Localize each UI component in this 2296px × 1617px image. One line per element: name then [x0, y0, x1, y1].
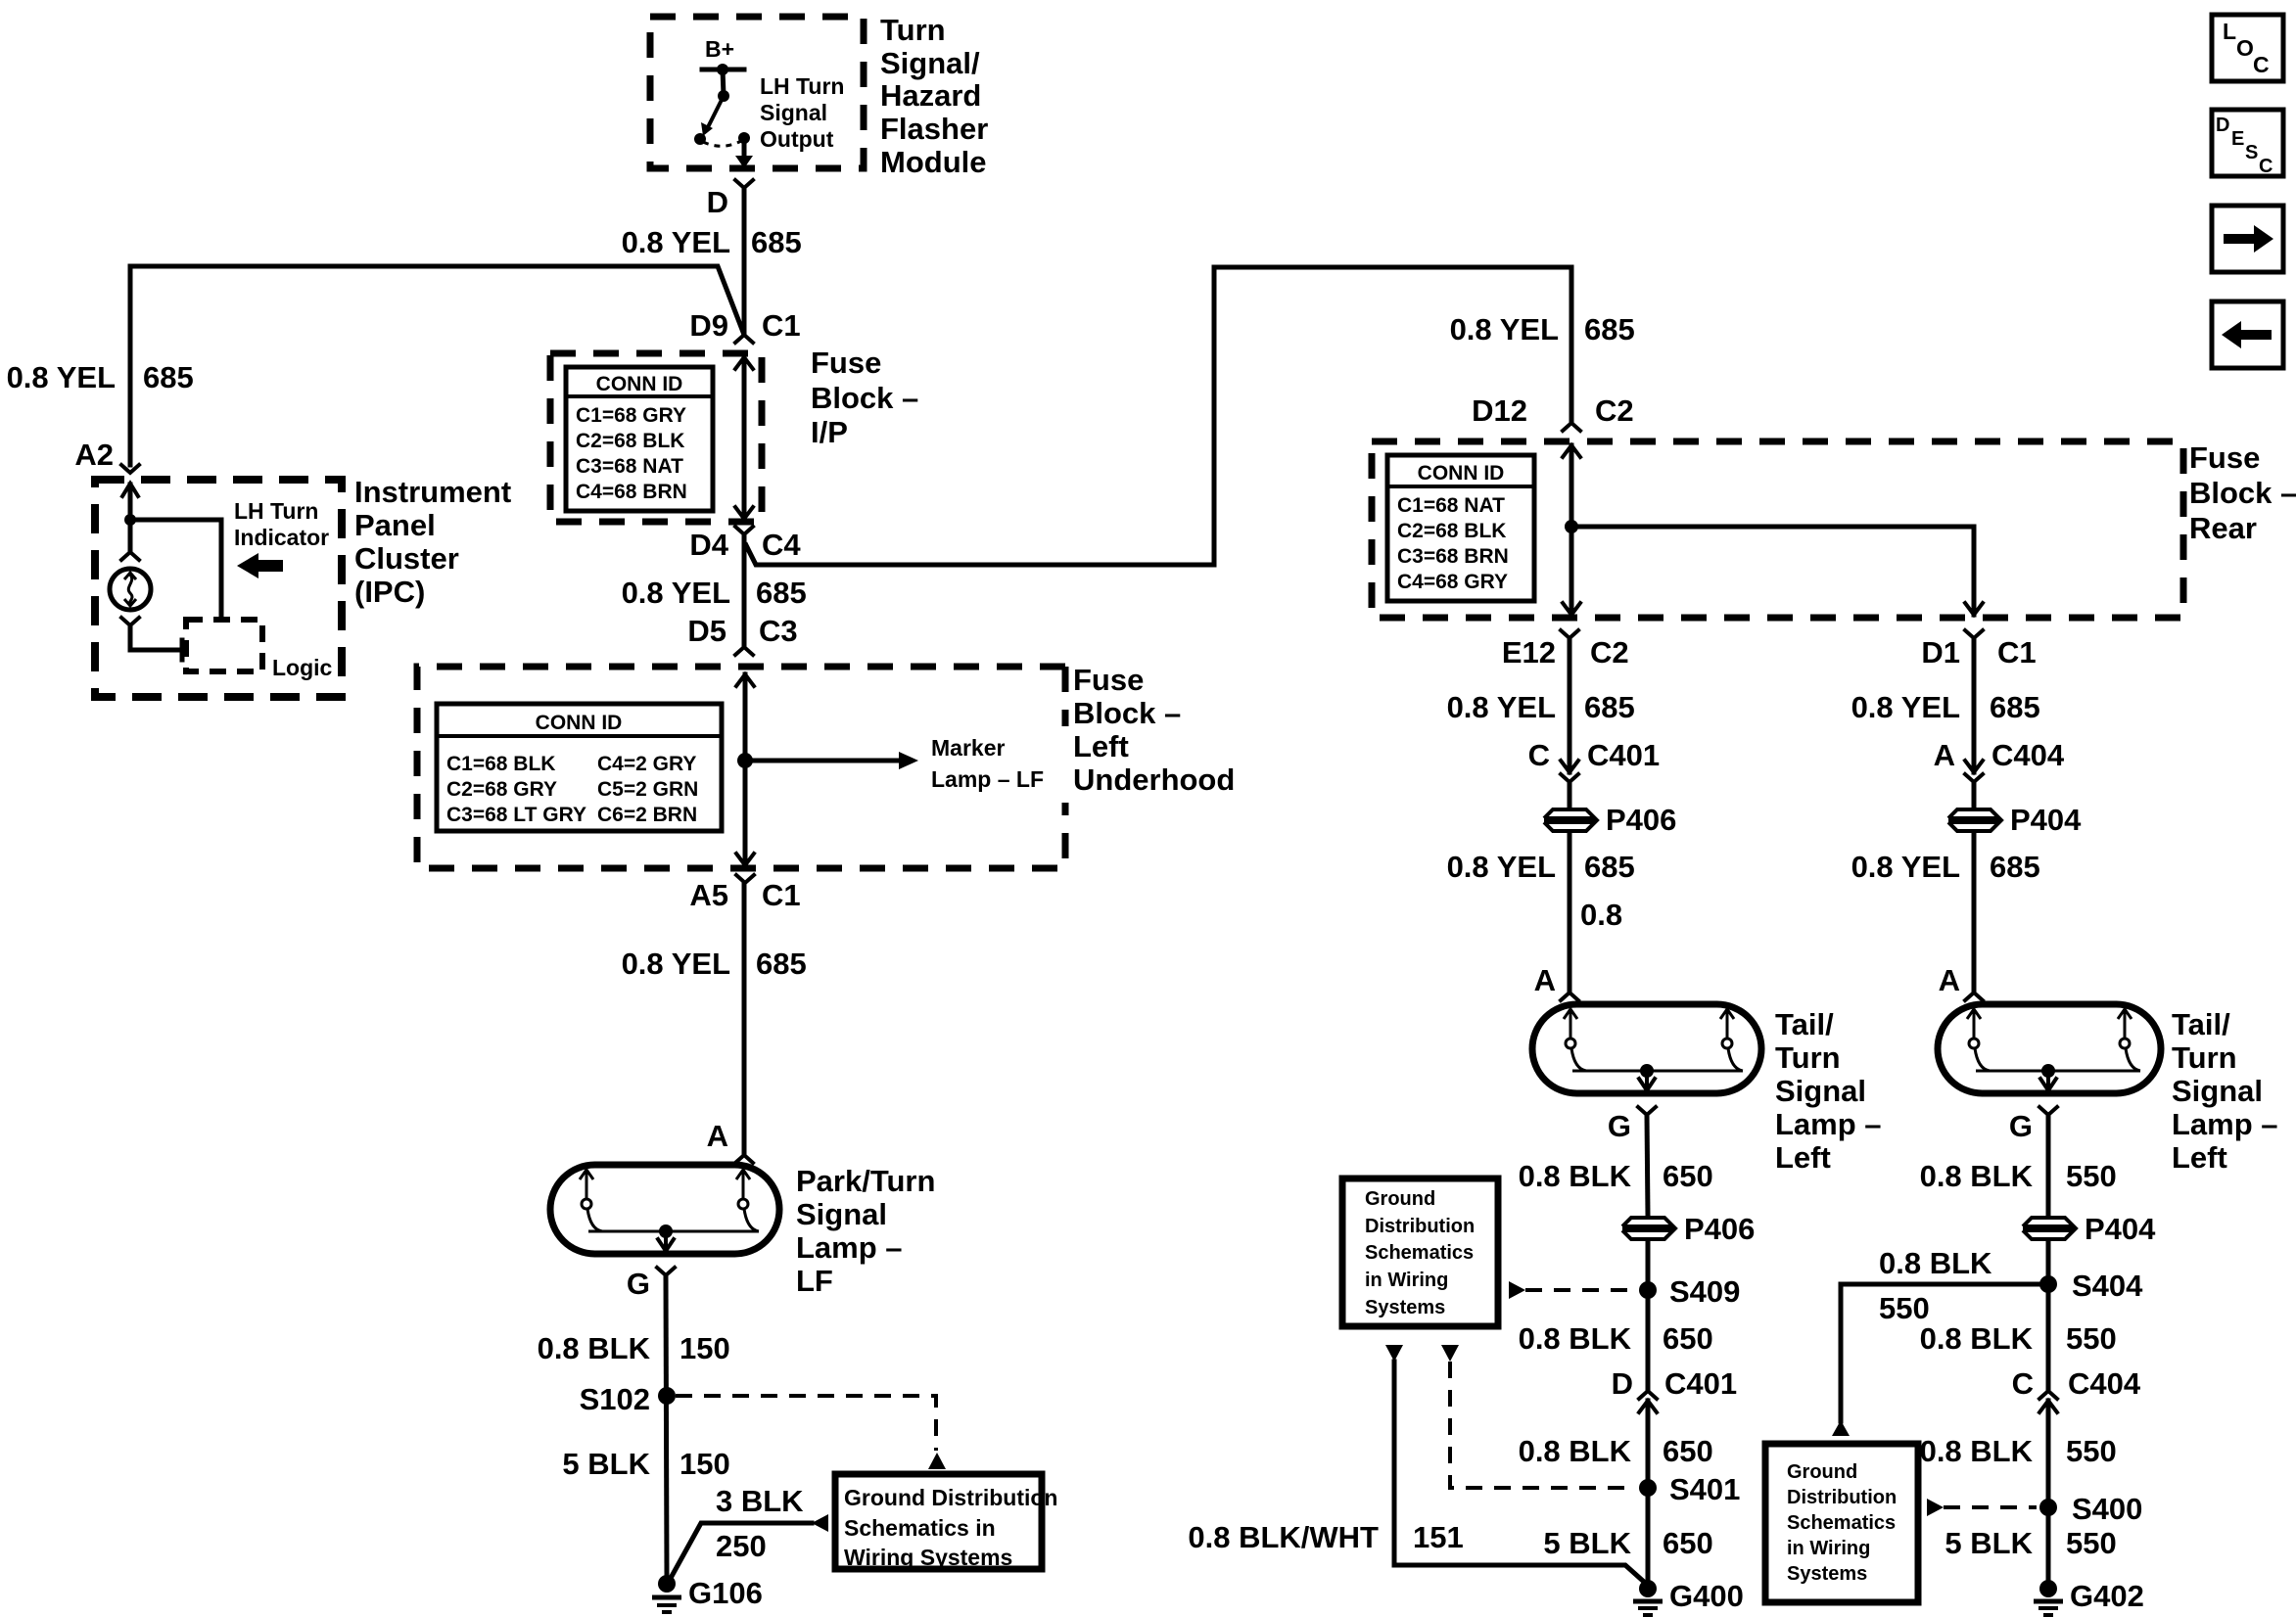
connector C/C404 arrow up: [2039, 1401, 2057, 1412]
svg-text:Ground: Ground: [1787, 1461, 1857, 1483]
lamp exit arrow: [2046, 1071, 2050, 1086]
wire G to P406: [1647, 1115, 1648, 1216]
svg-text:A: A: [1939, 963, 1960, 997]
svg-text:C6=2 BRN: C6=2 BRN: [597, 804, 697, 826]
lamp filament: [736, 1170, 759, 1231]
label Park/Turn Signal Lamp - LF: [796, 1164, 935, 1298]
svg-text:D5: D5: [687, 614, 726, 648]
svg-text:Indicator: Indicator: [234, 525, 329, 550]
svg-text:P406: P406: [1606, 803, 1676, 837]
grommet P406: [1544, 803, 1676, 837]
svg-text:C401: C401: [1664, 1366, 1737, 1401]
wire lamp to logic box: [130, 625, 182, 650]
CONN ID table I/P: [566, 367, 713, 511]
CONN ID table rear: [1387, 455, 1534, 601]
svg-text:Lamp –: Lamp –: [796, 1230, 903, 1265]
svg-text:550: 550: [1879, 1291, 1930, 1325]
grommet P404: [1948, 803, 2082, 837]
wire 3 BLK 250 to ground distribution: [670, 1523, 812, 1580]
svg-text:150: 150: [679, 1447, 730, 1481]
svg-text:S401: S401: [1669, 1472, 1740, 1506]
label LH Turn Signal Output: [760, 73, 844, 152]
svg-text:3 BLK: 3 BLK: [716, 1484, 804, 1518]
connector A5/C1 (female Y): [736, 875, 754, 883]
indicator arrow: [237, 553, 283, 578]
fuse block left underhood box: [417, 667, 1065, 868]
svg-text:Signal: Signal: [760, 100, 827, 125]
svg-text:Rear: Rear: [2189, 511, 2257, 545]
svg-text:550: 550: [2066, 1321, 2117, 1356]
svg-text:C1: C1: [762, 878, 801, 912]
svg-text:C2: C2: [1590, 635, 1629, 670]
svg-text:LH Turn: LH Turn: [234, 498, 318, 524]
svg-text:0.8 BLK: 0.8 BLK: [1920, 1159, 2034, 1193]
svg-text:Lamp –: Lamp –: [2172, 1107, 2278, 1141]
internal wire: [742, 357, 747, 519]
internal wire: [743, 674, 748, 865]
svg-text:C404: C404: [1991, 738, 2065, 772]
svg-text:5 BLK: 5 BLK: [562, 1447, 650, 1481]
LH turn indicator lamp: [110, 569, 151, 610]
svg-text:P404: P404: [2085, 1212, 2156, 1246]
flasher module box: [650, 17, 864, 168]
svg-text:C3: C3: [759, 614, 798, 648]
svg-text:Park/Turn: Park/Turn: [796, 1164, 935, 1198]
label Tail/Turn Signal Lamp - Left: [1775, 1007, 1882, 1175]
connector G below park lamp (female Y): [657, 1268, 675, 1275]
svg-text:G: G: [627, 1267, 650, 1301]
wire P404 to C404: [2046, 1241, 2051, 1391]
connector D12/C2 (male chevron): [1563, 423, 1580, 431]
wire 685 to instrument cluster: [130, 266, 744, 465]
connector C/C404 (male chevron): [2039, 1391, 2057, 1399]
reference arrow dashed to S401: [1441, 1345, 1459, 1362]
label Fuse Block - Rear: [2189, 440, 2296, 545]
svg-text:A2: A2: [74, 438, 114, 472]
svg-text:in Wiring: in Wiring: [1787, 1538, 1870, 1559]
svg-text:150: 150: [679, 1331, 730, 1365]
svg-text:0.8 YEL: 0.8 YEL: [622, 947, 730, 981]
svg-text:Signal/: Signal/: [880, 46, 980, 80]
branch wire to fuse block rear: [746, 267, 1571, 565]
svg-text:Logic: Logic: [272, 655, 333, 680]
icon box right-arrow: [2212, 206, 2283, 272]
B+ bus bar: [702, 68, 744, 72]
connector C/C401 arrow into: [1561, 761, 1578, 772]
svg-text:A: A: [1934, 738, 1955, 772]
svg-text:C2=68 BLK: C2=68 BLK: [1397, 520, 1506, 542]
svg-text:0.8: 0.8: [1580, 898, 1622, 932]
tail/turn signal lamp left body 2: [1938, 1004, 2161, 1093]
connector A/C404 (female Y): [1965, 774, 1983, 782]
svg-text:0.8 YEL: 0.8 YEL: [1851, 850, 1960, 884]
svg-text:5 BLK: 5 BLK: [1945, 1526, 2033, 1560]
svg-text:P406: P406: [1684, 1212, 1755, 1246]
svg-text:550: 550: [2066, 1159, 2117, 1193]
label Turn Signal/Hazard Flasher Module: [880, 13, 988, 179]
node IPC junction: [124, 514, 136, 526]
lamp bus wire: [1976, 1070, 2140, 1073]
node LH turn signal output contact: [738, 132, 750, 144]
svg-text:G106: G106: [688, 1576, 763, 1610]
svg-text:C401: C401: [1587, 738, 1660, 772]
node B+: [717, 64, 728, 75]
wire C404 to P404: [1972, 782, 1977, 808]
svg-text:Fuse: Fuse: [1073, 663, 1144, 697]
label Fuse Block - I/P: [811, 346, 918, 449]
svg-text:Panel: Panel: [354, 508, 436, 542]
icon box left-arrow: [2212, 301, 2283, 368]
ground distribution reference box S409/S401: [1342, 1178, 1498, 1326]
svg-text:C1=68 GRY: C1=68 GRY: [576, 404, 686, 427]
icon box LOC: [2212, 15, 2283, 81]
ground distribution reference box S400/S404: [1765, 1444, 1918, 1602]
svg-text:Fuse: Fuse: [2189, 440, 2260, 475]
svg-text:Tail/: Tail/: [2172, 1007, 2230, 1041]
lamp bus wire: [588, 1230, 759, 1233]
svg-text:O: O: [2236, 35, 2254, 61]
wire A5 to lamp: [742, 883, 747, 1155]
wire C401 to P406: [1568, 782, 1572, 808]
internal wire E12: [1570, 445, 1574, 615]
grommet P404 lower: [2023, 1212, 2156, 1246]
svg-text:0.8 YEL: 0.8 YEL: [1447, 690, 1556, 724]
svg-text:0.8 BLK: 0.8 BLK: [1519, 1159, 1632, 1193]
svg-text:650: 650: [1663, 1526, 1713, 1560]
icon box DESC: [2212, 110, 2283, 177]
svg-text:Ground: Ground: [1365, 1188, 1435, 1210]
connector A/C404 arrow into: [1965, 761, 1983, 772]
svg-text:Fuse: Fuse: [811, 346, 881, 380]
svg-text:0.8 YEL: 0.8 YEL: [1851, 690, 1960, 724]
entry arrow inside IPC: [122, 484, 138, 496]
ground distribution reference box LF: [835, 1474, 1057, 1570]
svg-text:685: 685: [756, 947, 807, 981]
svg-text:Turn: Turn: [2172, 1040, 2237, 1075]
svg-text:D: D: [1612, 1366, 1633, 1401]
svg-text:D9: D9: [689, 308, 728, 343]
ground G402: [2034, 1579, 2144, 1615]
svg-text:685: 685: [1990, 690, 2040, 724]
svg-text:LF: LF: [796, 1264, 833, 1298]
connector D/C401 arrow up: [1639, 1401, 1657, 1412]
svg-text:Schematics: Schematics: [1787, 1512, 1896, 1534]
svg-text:D: D: [707, 185, 728, 219]
svg-text:Underhood: Underhood: [1073, 762, 1235, 797]
node switch pivot: [718, 90, 729, 102]
label Marker Lamp - LF: [931, 735, 1044, 792]
svg-text:685: 685: [1990, 850, 2040, 884]
connector E12/C2 (female Y): [1561, 630, 1578, 638]
svg-text:250: 250: [716, 1529, 767, 1563]
svg-text:Marker: Marker: [931, 735, 1005, 761]
svg-text:C1=68 NAT: C1=68 NAT: [1397, 494, 1505, 517]
svg-text:E: E: [2231, 128, 2244, 150]
svg-text:S409: S409: [1669, 1274, 1740, 1309]
tail/turn signal lamp left body: [1532, 1004, 1761, 1093]
svg-text:650: 650: [1663, 1159, 1713, 1193]
svg-text:0.8 BLK: 0.8 BLK: [1519, 1321, 1632, 1356]
svg-text:G402: G402: [2070, 1579, 2144, 1613]
connector D5/C3 (male chevron): [735, 647, 753, 655]
lamp filament: [1564, 1009, 1586, 1071]
svg-text:685: 685: [1584, 312, 1635, 346]
internal branch to D1: [1571, 527, 1974, 615]
splice S102: [658, 1387, 676, 1405]
label Fuse Block - Left Underhood: [1073, 663, 1235, 797]
svg-text:D1: D1: [1921, 635, 1960, 670]
svg-text:G: G: [1608, 1109, 1631, 1143]
fuse block I/P box: [550, 353, 762, 522]
wire E12 to C401: [1568, 638, 1572, 772]
svg-text:C3=68 NAT: C3=68 NAT: [576, 455, 683, 478]
svg-text:C1: C1: [762, 308, 801, 343]
svg-text:L: L: [2223, 19, 2236, 44]
svg-text:Systems: Systems: [1365, 1297, 1445, 1318]
svg-text:E12: E12: [1502, 635, 1556, 670]
wire P406 to C401: [1646, 1241, 1651, 1391]
node lamp common: [2041, 1064, 2055, 1078]
logic box: [186, 620, 262, 671]
svg-text:Turn: Turn: [880, 13, 946, 47]
lamp bus wire: [1572, 1070, 1743, 1073]
svg-text:Block –: Block –: [2189, 476, 2296, 510]
svg-text:D12: D12: [1472, 393, 1527, 428]
svg-text:Signal: Signal: [1775, 1074, 1866, 1108]
ground G106: [652, 1575, 763, 1612]
svg-text:C3=68 BRN: C3=68 BRN: [1397, 545, 1509, 568]
dashed reference to S409: [1509, 1281, 1525, 1299]
label Instrument Panel Cluster (IPC): [354, 475, 511, 609]
reference arrow solid to 151 wire: [1385, 1345, 1403, 1362]
svg-text:G400: G400: [1669, 1579, 1744, 1613]
lamp filament: [2118, 1009, 2140, 1071]
svg-text:S102: S102: [580, 1382, 650, 1416]
svg-text:685: 685: [1584, 850, 1635, 884]
dashed reference to S400: [1927, 1499, 1944, 1516]
svg-text:Lamp – LF: Lamp – LF: [931, 766, 1044, 792]
svg-text:151: 151: [1413, 1520, 1464, 1554]
svg-text:Module: Module: [880, 145, 987, 179]
svg-text:0.8 YEL: 0.8 YEL: [622, 576, 730, 610]
IPC box: [95, 480, 342, 697]
svg-text:A: A: [707, 1119, 728, 1153]
svg-text:0.8 BLK/WHT: 0.8 BLK/WHT: [1188, 1520, 1379, 1554]
lamp filament: [1967, 1009, 1990, 1071]
svg-text:Ground Distribution: Ground Distribution: [844, 1485, 1057, 1510]
svg-text:0.8 BLK: 0.8 BLK: [538, 1331, 651, 1365]
svg-text:Turn: Turn: [1775, 1040, 1841, 1075]
svg-text:I/P: I/P: [811, 415, 848, 449]
connector below indicator lamp: [121, 618, 139, 625]
wire junction to lamp: [128, 520, 133, 552]
wire D1 to C404: [1972, 638, 1977, 772]
svg-text:(IPC): (IPC): [354, 575, 425, 609]
svg-text:A: A: [1534, 963, 1556, 997]
connector D/C401 (male chevron): [1639, 1391, 1657, 1399]
svg-text:685: 685: [751, 225, 802, 259]
svg-text:Signal: Signal: [796, 1197, 887, 1231]
svg-text:Schematics: Schematics: [1365, 1242, 1474, 1264]
svg-text:0.8 YEL: 0.8 YEL: [7, 360, 116, 394]
wire D4 to D5: [742, 534, 747, 647]
connector G below tail lamp 2 (female Y): [2039, 1107, 2057, 1115]
svg-text:Distribution: Distribution: [1787, 1487, 1897, 1508]
svg-text:LH Turn: LH Turn: [760, 73, 844, 99]
connector A (male chevron): [1561, 993, 1578, 1000]
svg-text:CONN ID: CONN ID: [536, 712, 623, 734]
connector A (male chevron): [1965, 993, 1983, 1000]
splice S409: [1639, 1281, 1657, 1299]
svg-text:C: C: [2259, 156, 2273, 177]
svg-text:Cluster: Cluster: [354, 541, 459, 576]
svg-text:B+: B+: [705, 36, 734, 62]
connector A (male chevron): [735, 1155, 753, 1163]
exit arrow inside left underhood: [736, 854, 754, 865]
lamp filament: [580, 1170, 602, 1231]
connector above indicator lamp: [121, 552, 139, 560]
svg-text:G: G: [2009, 1109, 2033, 1143]
svg-text:650: 650: [1663, 1321, 1713, 1356]
wire C401 to G400: [1646, 1401, 1651, 1580]
svg-text:C4=2 GRY: C4=2 GRY: [597, 753, 696, 775]
svg-text:Wiring Systems: Wiring Systems: [844, 1545, 1012, 1570]
svg-text:Flasher: Flasher: [880, 112, 988, 146]
dashed reference S102 to ground distribution: [676, 1396, 936, 1451]
svg-text:C3=68 LT GRY: C3=68 LT GRY: [446, 804, 586, 826]
svg-text:C2: C2: [1595, 393, 1634, 428]
svg-text:5 BLK: 5 BLK: [1543, 1526, 1631, 1560]
svg-text:S400: S400: [2072, 1492, 2142, 1526]
ground G400: [1633, 1579, 1744, 1615]
exit arrow D1: [1965, 603, 1983, 615]
svg-text:Lamp –: Lamp –: [1775, 1107, 1882, 1141]
svg-text:0.8 YEL: 0.8 YEL: [1450, 312, 1559, 346]
label Tail/Turn Signal Lamp - Left 2: [2172, 1007, 2278, 1175]
svg-text:Signal: Signal: [2172, 1074, 2263, 1108]
splice S404: [2039, 1275, 2057, 1293]
connector C/C401 (female Y): [1561, 774, 1578, 782]
svg-text:CONN ID: CONN ID: [1418, 462, 1505, 485]
svg-text:0.8 BLK: 0.8 BLK: [1920, 1434, 2034, 1468]
connector D9/C1 (male chevron): [735, 335, 753, 343]
wire branch to logic: [130, 520, 221, 620]
wire G to S102: [666, 1275, 667, 1575]
svg-text:685: 685: [143, 360, 194, 394]
connector D1/C1 (female Y): [1965, 630, 1983, 638]
svg-text:Systems: Systems: [1787, 1563, 1867, 1585]
svg-text:Left: Left: [1073, 729, 1129, 763]
entry arrow inside fuse block I/P: [735, 357, 753, 369]
svg-text:Output: Output: [760, 126, 834, 152]
svg-text:D: D: [2216, 115, 2229, 136]
svg-text:A5: A5: [689, 878, 728, 912]
lamp filament: [1720, 1009, 1743, 1071]
svg-text:C1=68 BLK: C1=68 BLK: [446, 753, 555, 775]
entry arrow inside fuse block rear: [1563, 445, 1580, 457]
svg-text:CONN ID: CONN ID: [596, 373, 683, 395]
entry arrow inside left underhood: [736, 674, 754, 686]
svg-text:685: 685: [1584, 690, 1635, 724]
fuse block rear box: [1372, 441, 2183, 618]
svg-text:Left: Left: [1775, 1140, 1831, 1175]
park/turn signal lamp LF body: [550, 1165, 779, 1254]
label LH Turn Indicator: [234, 498, 329, 550]
svg-text:in Wiring: in Wiring: [1365, 1270, 1448, 1291]
connector A2 (female Y): [121, 465, 139, 473]
svg-text:550: 550: [2066, 1526, 2117, 1560]
exit arrow E12: [1563, 603, 1580, 615]
switch pole wire: [723, 69, 724, 95]
svg-text:C4=68 BRN: C4=68 BRN: [576, 481, 687, 503]
wire 0.8 BLK/WHT 151: [1394, 1362, 1644, 1582]
svg-text:P404: P404: [2010, 803, 2082, 837]
splice S400: [2039, 1499, 2057, 1516]
svg-text:685: 685: [756, 576, 807, 610]
svg-text:0.8 BLK: 0.8 BLK: [1879, 1246, 1992, 1280]
svg-text:0.8 YEL: 0.8 YEL: [1447, 850, 1556, 884]
lamp exit arrow: [1645, 1071, 1649, 1086]
node lamp common: [1640, 1064, 1654, 1078]
lamp exit arrow: [664, 1231, 668, 1246]
svg-text:Hazard: Hazard: [880, 78, 981, 113]
svg-text:C2=68 GRY: C2=68 GRY: [446, 778, 557, 801]
svg-text:550: 550: [2066, 1434, 2117, 1468]
svg-text:Left: Left: [2172, 1140, 2227, 1175]
wire P406 to lamp: [1568, 833, 1572, 993]
connector D4/C4 (female Y): [735, 527, 753, 534]
svg-text:Schematics in: Schematics in: [844, 1515, 996, 1541]
svg-text:C2=68 BLK: C2=68 BLK: [576, 430, 684, 452]
svg-text:Instrument: Instrument: [354, 475, 511, 509]
connector D (female Y): [735, 180, 753, 188]
node lamp common: [659, 1224, 673, 1238]
svg-text:Tail/: Tail/: [1775, 1007, 1834, 1041]
svg-text:C: C: [2253, 52, 2270, 77]
svg-text:Distribution: Distribution: [1365, 1216, 1475, 1237]
exit arrow inside fuse block I/P: [735, 507, 753, 519]
node marker lamp branch: [737, 753, 753, 768]
node rear branch: [1565, 520, 1578, 533]
svg-text:C: C: [1528, 738, 1550, 772]
svg-text:0.8 BLK: 0.8 BLK: [1519, 1434, 1632, 1468]
switch travel dashed arc: [703, 141, 741, 146]
marker lamp branch arrow: [745, 759, 901, 763]
splice S401: [1639, 1479, 1657, 1497]
svg-text:S404: S404: [2072, 1269, 2143, 1303]
svg-text:C: C: [2012, 1366, 2034, 1401]
svg-text:D4: D4: [689, 528, 728, 562]
output arrow exiting flasher box: [742, 138, 747, 157]
svg-text:C1: C1: [1997, 635, 2037, 670]
svg-text:Block –: Block –: [1073, 696, 1181, 730]
svg-text:C404: C404: [2068, 1366, 2141, 1401]
svg-text:C4=68 GRY: C4=68 GRY: [1397, 571, 1508, 593]
wire 685 flasher to D9: [742, 188, 747, 335]
CONN ID table left underhood: [437, 704, 722, 831]
connector G below tail lamp (female Y): [1638, 1107, 1656, 1115]
wire C404 to G402: [2046, 1401, 2051, 1580]
svg-text:S: S: [2245, 142, 2258, 163]
svg-text:C4: C4: [762, 528, 801, 562]
svg-text:0.8 YEL: 0.8 YEL: [622, 225, 730, 259]
wire G to P404: [2046, 1115, 2051, 1216]
svg-text:0.8 BLK: 0.8 BLK: [1920, 1321, 2034, 1356]
svg-text:Block –: Block –: [811, 381, 918, 415]
switch arm with arrowhead: [709, 96, 724, 125]
grommet P406 lower: [1622, 1212, 1755, 1246]
svg-text:650: 650: [1663, 1434, 1713, 1468]
